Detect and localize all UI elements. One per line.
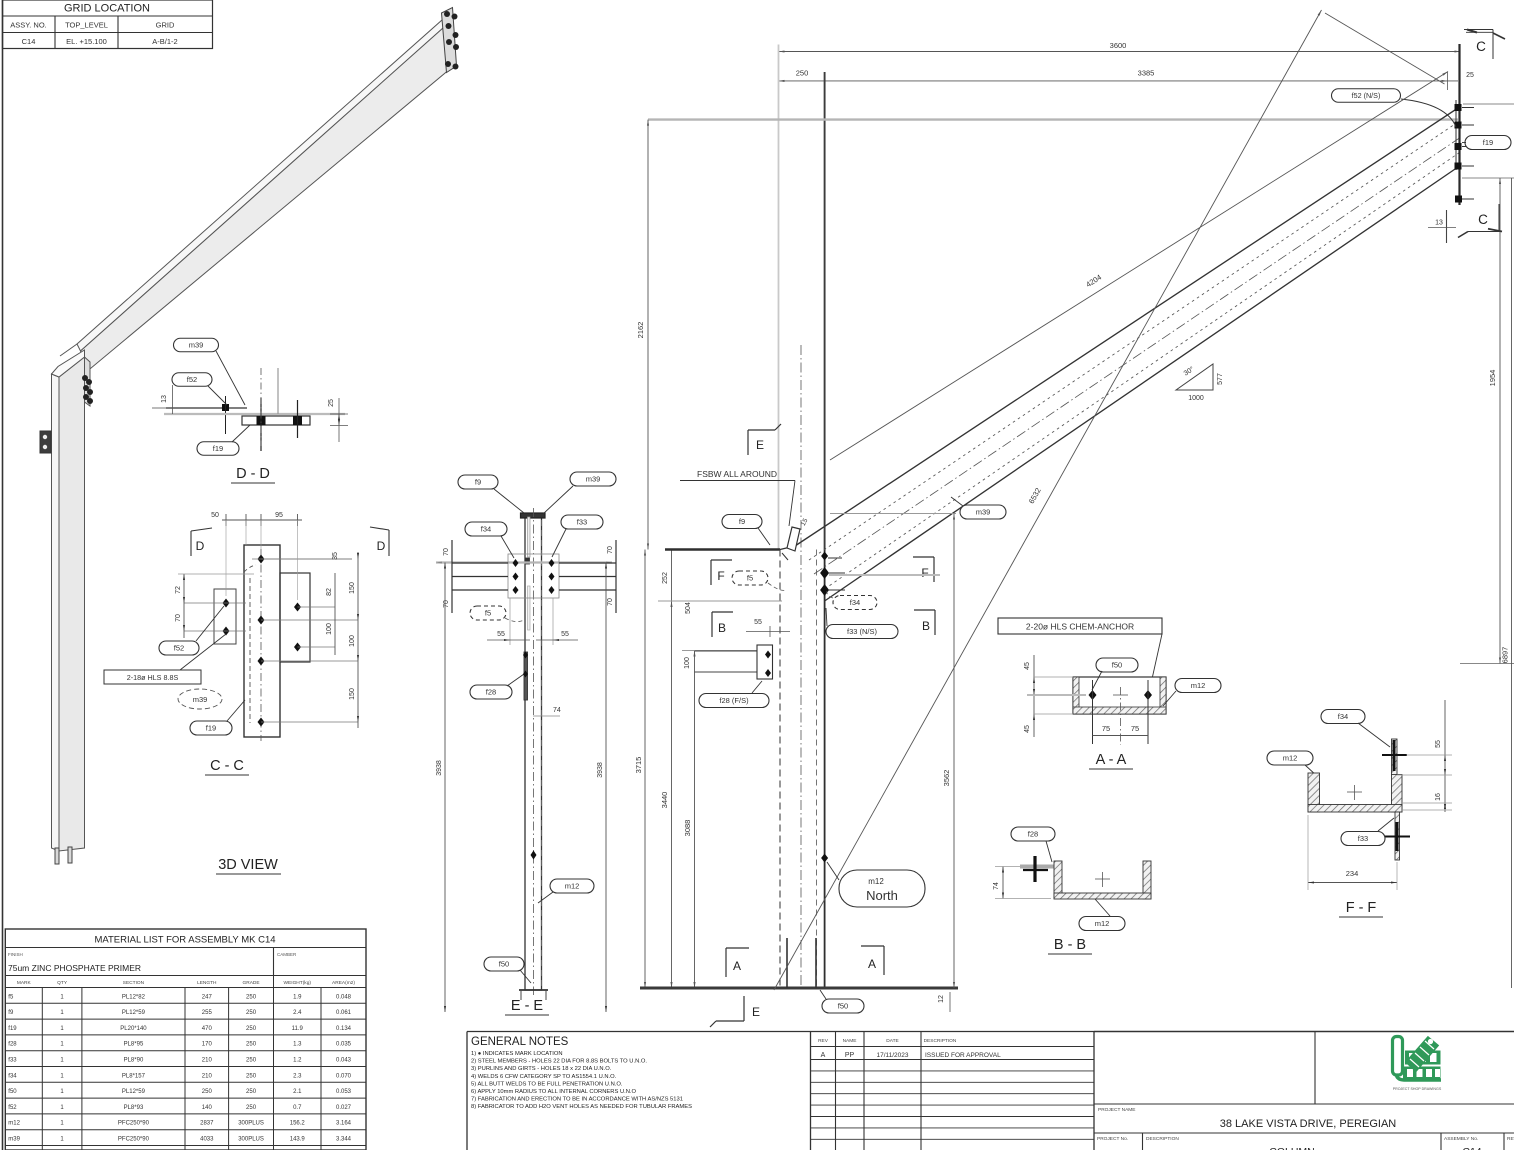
elevation level line 601 — [658, 600, 782, 602]
section mark A right — [883, 946, 885, 975]
elevation dim 3088 — [694, 651, 696, 989]
svg-text:95: 95 — [275, 512, 283, 519]
material list rows — [5, 1002, 366, 1004]
svg-text:CAMBER: CAMBER — [277, 952, 297, 957]
svg-text:4033: 4033 — [200, 1137, 214, 1143]
svg-text:3) PURLINS AND GIRTS - HOLES 1: 3) PURLINS AND GIRTS - HOLES 18 x 22 DIA… — [471, 1066, 612, 1072]
section E-E left dim 70 70 — [451, 540, 453, 613]
section F-F f34 anchor cross — [1393, 740, 1396, 771]
section A-A web hatch — [1073, 707, 1166, 714]
svg-text:B - B: B - B — [1054, 937, 1086, 953]
svg-text:f9: f9 — [739, 517, 745, 526]
label f28 (B-B) — [1011, 827, 1055, 841]
svg-text:REV: REV — [818, 1038, 829, 1044]
svg-text:3562: 3562 — [942, 770, 951, 787]
section F-F channel right wall — [1392, 775, 1403, 813]
section B-B dim 74 — [1002, 867, 1004, 899]
svg-text:250: 250 — [246, 1058, 257, 1064]
svg-text:0.027: 0.027 — [336, 1105, 352, 1111]
svg-text:f19: f19 — [8, 1026, 17, 1032]
svg-text:2.4: 2.4 — [293, 1010, 302, 1016]
section E-E centerline — [533, 508, 535, 995]
section C-C m39 dashed cloud — [178, 689, 222, 709]
svg-text:f28: f28 — [8, 1042, 17, 1048]
section A-A dim 75 75 — [1093, 735, 1149, 737]
detail D-D flange line f52 — [166, 407, 247, 409]
section mark C lower — [1468, 231, 1502, 233]
slope triangle 30 577 1000 — [1176, 364, 1213, 390]
svg-text:3.164: 3.164 — [336, 1121, 352, 1127]
3D view side cleat — [40, 431, 51, 453]
svg-text:1000: 1000 — [1188, 395, 1204, 402]
3D view rafter top flange strip — [77, 18, 448, 351]
svg-text:C - C: C - C — [210, 758, 244, 774]
svg-text:3D VIEW: 3D VIEW — [218, 857, 278, 873]
svg-text:f50: f50 — [499, 960, 509, 969]
svg-text:150: 150 — [349, 688, 356, 700]
elevation dim 3562 — [953, 514, 955, 989]
svg-text:EL. +15.100: EL. +15.100 — [66, 37, 107, 46]
elevation rafter bottom flange — [825, 166, 1460, 601]
svg-text:F: F — [717, 569, 724, 583]
section C-C main plate — [244, 545, 280, 737]
label m39 (D-D) — [174, 338, 219, 352]
section E-E level line — [436, 561, 612, 563]
svg-text:170: 170 — [202, 1042, 213, 1048]
section mark E top — [747, 430, 749, 455]
svg-text:25: 25 — [328, 399, 335, 407]
svg-text:8) FABRICATOR TO ADD H2O VENT: 8) FABRICATOR TO ADD H2O VENT HOLES AS N… — [471, 1104, 692, 1110]
svg-text:f50: f50 — [838, 1002, 848, 1011]
svg-text:140: 140 — [202, 1105, 213, 1111]
svg-text:0.061: 0.061 — [336, 1010, 352, 1016]
section E-E top cap plate f9 — [521, 513, 546, 518]
general notes box — [467, 1031, 811, 1033]
svg-text:234: 234 — [1346, 869, 1359, 878]
3D view eave connection plate — [85, 357, 91, 406]
svg-text:1) ● INDICATES MARK LOCATION: 1) ● INDICATES MARK LOCATION — [471, 1051, 563, 1057]
svg-text:3938: 3938 — [597, 762, 604, 778]
svg-text:35: 35 — [332, 552, 339, 560]
section A-A center cross — [1113, 694, 1128, 696]
svg-text:E - E: E - E — [511, 998, 544, 1014]
section C-C left dims 72 70 — [183, 574, 185, 638]
svg-text:300PLUS: 300PLUS — [238, 1121, 264, 1127]
section mark F right — [933, 557, 935, 582]
svg-text:70: 70 — [175, 614, 182, 622]
section B-B channel web — [1054, 893, 1151, 899]
svg-text:f5: f5 — [747, 574, 753, 583]
svg-text:1.2: 1.2 — [293, 1058, 302, 1064]
label f52 (D-D) — [172, 373, 212, 387]
svg-text:AREA(m2): AREA(m2) — [332, 980, 355, 986]
svg-text:72: 72 — [175, 586, 182, 594]
section C-C cut mark D right — [388, 530, 390, 556]
svg-text:PL12*59: PL12*59 — [122, 1010, 146, 1016]
svg-text:MARK: MARK — [17, 980, 32, 986]
section C-C hidden member dashes — [249, 578, 251, 723]
elevation right stub line 178 — [1462, 177, 1514, 179]
label f19 (D-D) — [197, 442, 239, 456]
label f34 dashed (elevation) — [833, 596, 877, 610]
svg-text:m39: m39 — [189, 341, 204, 350]
svg-text:FINISH: FINISH — [8, 952, 23, 957]
svg-text:D: D — [377, 539, 386, 553]
svg-text:16: 16 — [1435, 793, 1442, 801]
detail D-D dim 13 — [172, 385, 174, 414]
svg-text:f28: f28 — [486, 688, 496, 697]
svg-text:250: 250 — [202, 1089, 213, 1095]
section F-F f33 anchor cross — [1396, 822, 1399, 851]
svg-text:0.035: 0.035 — [336, 1042, 352, 1048]
svg-text:f19: f19 — [206, 724, 216, 733]
svg-text:f50: f50 — [8, 1089, 17, 1095]
elevation rafter bottom flange inner dashed — [825, 153, 1460, 590]
detail D-D web line — [277, 368, 279, 414]
elevation level line 650 — [682, 650, 757, 652]
section C-C bolts left f52 — [223, 599, 230, 608]
svg-text:150: 150 — [349, 582, 356, 594]
section B-B center cross — [1095, 878, 1110, 880]
detail D-D bolt 2 — [293, 416, 302, 425]
label f28 (E-E) — [470, 685, 512, 699]
3D view rafter member — [81, 24, 451, 370]
svg-text:0.134: 0.134 — [336, 1026, 352, 1032]
svg-text:B: B — [718, 621, 726, 635]
section F-F f34 plate — [1392, 739, 1398, 775]
svg-text:GRID: GRID — [156, 21, 175, 30]
title block frame — [1094, 1031, 1514, 1033]
elevation dim 2162 — [647, 120, 649, 550]
section B-B anchor cross — [1033, 856, 1036, 882]
label f5 dashed (E-E) — [470, 606, 506, 620]
section E-E base — [519, 989, 548, 991]
section A-A right wall hatch — [1160, 677, 1166, 714]
svg-text:75um ZINC PHOSPHATE PRIMER: 75um ZINC PHOSPHATE PRIMER — [8, 963, 141, 973]
3D view base studs — [55, 848, 59, 864]
section A-A dims 45 45 — [1033, 655, 1035, 737]
section E-E web right dashes — [541, 520, 543, 988]
svg-text:470: 470 — [202, 1026, 213, 1032]
svg-text:C14: C14 — [22, 37, 36, 46]
svg-text:250: 250 — [246, 1105, 257, 1111]
svg-text:f52 (N/S): f52 (N/S) — [1352, 91, 1381, 100]
svg-text:PL8*90: PL8*90 — [124, 1058, 144, 1064]
label f9 (elevation) — [722, 515, 762, 529]
section B-B f28 plate edge — [1020, 865, 1054, 869]
apex end plate f19 — [1458, 44, 1460, 205]
3D view rafter end bolts — [444, 11, 450, 17]
svg-text:D - D: D - D — [236, 466, 270, 482]
svg-text:PROJECT No.: PROJECT No. — [1097, 1136, 1128, 1142]
detail D-D centerline — [260, 368, 262, 446]
svg-text:ASSEMBLY No.: ASSEMBLY No. — [1444, 1136, 1478, 1142]
elevation base plate — [640, 987, 958, 990]
section A-A channel outline — [1073, 677, 1166, 714]
svg-text:REV: REV — [1507, 1136, 1514, 1142]
label m39 (E-E) — [570, 472, 616, 486]
svg-text:f5: f5 — [8, 994, 14, 1000]
svg-text:m12: m12 — [1095, 919, 1110, 928]
svg-text:13: 13 — [161, 395, 168, 403]
elevation column centerline — [800, 345, 802, 988]
svg-text:f33 (N/S): f33 (N/S) — [847, 627, 878, 636]
svg-text:COLUMN: COLUMN — [1269, 1146, 1315, 1150]
svg-text:45: 45 — [1024, 662, 1031, 670]
svg-text:f19: f19 — [213, 444, 223, 453]
section E-E inner plate marks — [528, 517, 531, 557]
svg-text:WEIGHT(kg): WEIGHT(kg) — [284, 980, 312, 986]
svg-text:504: 504 — [685, 602, 692, 614]
label f19 (C-C) — [190, 721, 232, 735]
svg-text:70: 70 — [607, 546, 614, 554]
revision empty row lines — [811, 1059, 1095, 1061]
label f34 (E-E) — [465, 522, 507, 536]
svg-text:A-B/1-2: A-B/1-2 — [152, 37, 177, 46]
section mark E bottom — [743, 996, 745, 1021]
svg-text:45: 45 — [1024, 725, 1031, 733]
label f52 (N/S) — [1332, 89, 1401, 103]
svg-text:210: 210 — [202, 1058, 213, 1064]
section E-E bolt group box — [508, 554, 559, 598]
svg-text:100: 100 — [684, 657, 691, 669]
sheet left border — [2, 0, 4, 1150]
label 2-18 HLS 8.8S (C-C) — [104, 670, 201, 684]
logo — [1393, 1037, 1442, 1081]
svg-text:55: 55 — [561, 631, 569, 638]
svg-text:7) FABRICATION AND ERECTION TO: 7) FABRICATION AND ERECTION TO BE IN ACC… — [471, 1097, 683, 1103]
label f5 dashed (elevation) — [732, 571, 768, 585]
elevation dim 1954 — [1499, 178, 1501, 664]
svg-text:3385: 3385 — [1138, 69, 1155, 78]
elevation rafter top flange — [780, 546, 795, 550]
svg-text:DATE: DATE — [886, 1038, 898, 1044]
section mark B left — [711, 612, 713, 637]
elevation top line right stub — [1463, 103, 1514, 105]
label f50 (E-E) — [484, 957, 524, 971]
label f33 (F-F) — [1341, 832, 1385, 846]
svg-text:3600: 3600 — [1110, 41, 1127, 50]
elevation grid line east face — [824, 72, 826, 550]
svg-text:100: 100 — [349, 635, 356, 647]
section E-E bolt rows — [452, 562, 508, 564]
svg-text:PL20*140: PL20*140 — [120, 1026, 147, 1032]
label m12 (F-F) — [1267, 751, 1313, 765]
section C-C left plate f52 — [214, 589, 236, 644]
svg-text:B: B — [922, 619, 930, 633]
svg-text:m12: m12 — [1191, 681, 1206, 690]
svg-text:f19: f19 — [1483, 138, 1493, 147]
3D view column member — [52, 374, 60, 851]
material list table frame — [5, 929, 366, 1150]
svg-text:3088: 3088 — [683, 820, 692, 837]
svg-text:DESCRIPTION: DESCRIPTION — [924, 1038, 957, 1044]
svg-text:F - F: F - F — [1346, 900, 1377, 916]
svg-text:75: 75 — [1102, 724, 1110, 733]
elevation dim line 250/3385 — [779, 80, 1459, 82]
label f50 (elevation) — [822, 999, 864, 1013]
svg-text:PP: PP — [845, 1052, 855, 1059]
svg-text:55: 55 — [754, 619, 762, 626]
svg-text:50: 50 — [211, 512, 219, 519]
section F-F channel web — [1308, 805, 1402, 813]
section E-E right dim 70 70 — [615, 540, 617, 613]
svg-text:74: 74 — [553, 707, 561, 714]
svg-text:250: 250 — [246, 1089, 257, 1095]
svg-text:PL12*82: PL12*82 — [122, 994, 146, 1000]
svg-text:2-20ø HLS CHEM-ANCHOR: 2-20ø HLS CHEM-ANCHOR — [1026, 622, 1134, 632]
svg-text:f52: f52 — [174, 644, 184, 653]
svg-text:0.070: 0.070 — [336, 1073, 352, 1079]
elevation dim 6897 right margin — [1511, 178, 1513, 988]
svg-text:GRADE: GRADE — [243, 980, 260, 986]
svg-text:252: 252 — [662, 572, 669, 584]
svg-text:156.2: 156.2 — [290, 1121, 306, 1127]
svg-text:f50: f50 — [1112, 661, 1122, 670]
elevation rafter top flange inner dashed — [809, 121, 1460, 560]
label f19 (apex) — [1465, 136, 1511, 150]
diagonal dimension 4204 — [830, 72, 1448, 461]
elevation dim 252 — [671, 550, 673, 602]
svg-text:11.9: 11.9 — [292, 1026, 304, 1032]
svg-text:E: E — [752, 1005, 760, 1019]
svg-text:70: 70 — [443, 600, 450, 608]
svg-text:3.344: 3.344 — [336, 1137, 352, 1143]
svg-text:247: 247 — [202, 994, 213, 1000]
elevation right stub line 663 — [1460, 663, 1514, 665]
svg-text:250: 250 — [246, 1073, 257, 1079]
svg-text:m12: m12 — [565, 882, 580, 891]
svg-text:TOP_LEVEL: TOP_LEVEL — [65, 21, 108, 30]
elevation column inner flange hidden — [816, 550, 818, 989]
svg-text:17/11/2023: 17/11/2023 — [876, 1052, 908, 1059]
3D view column top cap — [52, 350, 85, 377]
section C-C top dims 50 95 — [222, 519, 302, 521]
label f34 (F-F) — [1321, 710, 1365, 724]
section A-A anchor note box — [998, 618, 1162, 634]
svg-text:0.7: 0.7 — [293, 1105, 302, 1111]
label m12 (A-A) — [1175, 679, 1221, 693]
svg-text:F: F — [921, 566, 928, 580]
section E-E column web — [525, 516, 542, 990]
svg-text:PL8*95: PL8*95 — [124, 1042, 144, 1048]
svg-text:PL8*157: PL8*157 — [122, 1073, 146, 1079]
section E-E mid weld plate — [526, 558, 530, 564]
svg-text:250: 250 — [246, 994, 257, 1000]
elevation f28 bracket — [695, 650, 758, 652]
svg-text:250: 250 — [246, 1042, 257, 1048]
elevation haunch end plate f9 — [787, 527, 800, 551]
svg-text:m39: m39 — [193, 695, 208, 704]
svg-text:f28 (F/S): f28 (F/S) — [719, 696, 749, 705]
svg-text:55: 55 — [497, 631, 505, 638]
svg-text:70: 70 — [607, 598, 614, 606]
svg-text:f52: f52 — [187, 375, 197, 384]
elevation m12 bolt — [821, 854, 828, 863]
svg-text:2837: 2837 — [200, 1121, 214, 1127]
section F-F center cross — [1347, 791, 1362, 793]
elevation dim 13 apex — [1446, 210, 1448, 243]
material list column lines — [41, 988, 43, 1150]
svg-text:25: 25 — [1466, 72, 1474, 79]
svg-text:12: 12 — [938, 995, 945, 1003]
svg-text:250: 250 — [796, 69, 809, 78]
grid location table frame — [3, 0, 213, 49]
section C-C bolts center — [258, 555, 265, 564]
section C-C cut mark D left — [190, 531, 192, 556]
svg-text:38 LAKE VISTA DRIVE, PEREGIAN: 38 LAKE VISTA DRIVE, PEREGIAN — [1220, 1118, 1397, 1130]
detail D-D grey level line — [164, 413, 345, 415]
elevation F level line — [829, 574, 940, 576]
label f33 (E-E) — [561, 515, 603, 529]
svg-text:f9: f9 — [475, 478, 481, 487]
svg-text:250: 250 — [246, 1026, 257, 1032]
svg-text:3715: 3715 — [634, 757, 643, 774]
section mark B right — [934, 610, 936, 635]
svg-text:74: 74 — [993, 882, 1000, 890]
svg-text:f52: f52 — [8, 1105, 17, 1111]
svg-text:PL12*59: PL12*59 — [122, 1089, 146, 1095]
svg-text:A: A — [733, 959, 741, 973]
section C-C right dims 150 100 150 — [357, 552, 359, 728]
svg-text:6897: 6897 — [1501, 647, 1510, 664]
svg-text:577: 577 — [1217, 373, 1224, 385]
svg-text:5) ALL BUTT WELDS TO BE FULL P: 5) ALL BUTT WELDS TO BE FULL PENETRATION… — [471, 1081, 623, 1087]
svg-text:DESCRIPTION: DESCRIPTION — [1146, 1136, 1179, 1142]
section E-E dim 3938 left — [444, 563, 446, 1013]
svg-text:250: 250 — [246, 1010, 257, 1016]
section E-E f28 plate edge — [524, 652, 528, 700]
svg-text:82: 82 — [326, 588, 333, 596]
label f9 (E-E) — [458, 475, 498, 489]
elevation line 513 — [830, 513, 956, 515]
label f28 (F/S) — [699, 694, 769, 708]
section E-E mark bolt mid — [531, 851, 537, 860]
label m39 (elevation) — [960, 505, 1006, 519]
svg-text:f34: f34 — [8, 1073, 17, 1079]
section C-C side plate — [280, 573, 310, 662]
svg-text:MATERIAL LIST FOR ASSEMBLY MK: MATERIAL LIST FOR ASSEMBLY MK C14 — [94, 935, 275, 946]
3D view eave bolts — [82, 375, 88, 381]
svg-text:2-18ø HLS 8.8S: 2-18ø HLS 8.8S — [127, 673, 179, 682]
svg-text:1954: 1954 — [1488, 370, 1497, 387]
svg-text:2162: 2162 — [636, 322, 645, 339]
svg-text:255: 255 — [202, 1010, 213, 1016]
svg-text:2.1: 2.1 — [293, 1089, 302, 1095]
elevation dim 3440 — [671, 601, 673, 988]
svg-text:m12: m12 — [8, 1121, 20, 1127]
svg-text:m39: m39 — [8, 1137, 20, 1143]
svg-text:PROJECT SHOP DRAWINGS: PROJECT SHOP DRAWINGS — [1393, 1087, 1442, 1091]
section mark F left — [710, 560, 712, 585]
section A-A bolts — [1089, 690, 1097, 700]
svg-text:GRID LOCATION: GRID LOCATION — [64, 3, 150, 15]
svg-text:LENGTH: LENGTH — [197, 980, 217, 986]
svg-text:3938: 3938 — [436, 760, 443, 776]
label m12 (E-E) — [550, 879, 594, 893]
svg-text:m39: m39 — [586, 475, 601, 484]
elevation column east flange — [824, 550, 826, 989]
svg-text:0.048: 0.048 — [336, 994, 352, 1000]
label f33 (N/S) (elevation) — [826, 625, 898, 639]
elevation dim 3600 — [779, 51, 1461, 53]
svg-text:C14: C14 — [1462, 1146, 1481, 1150]
svg-text:300PLUS: 300PLUS — [238, 1137, 264, 1143]
svg-text:A: A — [868, 957, 876, 971]
detail D-D dim 25 — [338, 398, 340, 442]
svg-text:FSBW ALL AROUND: FSBW ALL AROUND — [697, 469, 777, 479]
svg-text:55: 55 — [1435, 740, 1442, 748]
